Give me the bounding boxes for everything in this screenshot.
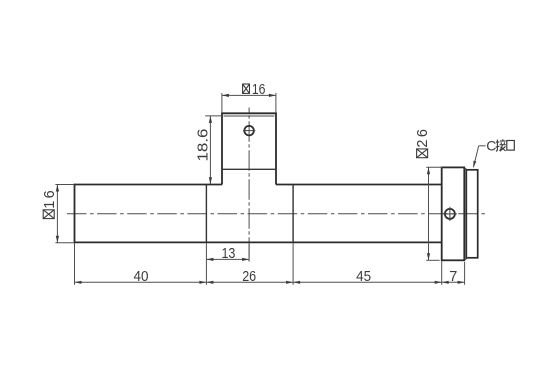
dimension diameter 16 top: extension lines xyxy=(222,93,276,113)
leader line for C interface xyxy=(474,146,486,167)
dimension diameter 26: extension lines xyxy=(426,167,442,260)
tube section line left xyxy=(205,185,207,243)
main tube outline xyxy=(75,184,442,244)
horizontal centerline xyxy=(67,213,487,215)
svg-text:16: 16 xyxy=(42,188,58,209)
dimension 13: arrows xyxy=(206,258,249,261)
top hole xyxy=(244,126,254,136)
label CJK kou (interface char 2) xyxy=(507,141,515,151)
dimension diameter 26: arrows xyxy=(427,167,430,260)
dimension 18.6: arrows xyxy=(209,116,212,184)
dimension diameter 16 left: dimension line xyxy=(56,185,58,243)
flange hole vertical tick xyxy=(449,207,451,221)
band between flange and C ring xyxy=(464,169,466,260)
chain dimension arrows xyxy=(75,281,465,284)
flange hole xyxy=(445,209,455,219)
svg-text:26: 26 xyxy=(415,127,431,148)
flange outline xyxy=(442,167,465,260)
dimension 13: extension line right (centerline extension) xyxy=(248,244,250,261)
chain dimension line xyxy=(75,281,465,283)
label CJK jie (interface char 1) xyxy=(496,139,506,151)
dimension diameter 16 left: extension lines xyxy=(55,185,74,243)
svg-text:16: 16 xyxy=(252,82,266,98)
dimension diameter 16 top: arrows xyxy=(222,94,276,97)
svg-text:7: 7 xyxy=(449,269,457,285)
dimension diameter 16 top: diameter box symbol xyxy=(243,84,250,93)
svg-text:C: C xyxy=(486,137,496,153)
svg-text:13: 13 xyxy=(221,246,235,262)
svg-text:26: 26 xyxy=(242,269,256,285)
vertical tube outline xyxy=(221,113,277,184)
vertical tube chamfer line xyxy=(224,115,275,117)
dimension diameter 26: dimension line xyxy=(428,167,430,260)
svg-text:45: 45 xyxy=(356,269,371,285)
dimension diameter 16 top: dimension line xyxy=(222,94,276,96)
dimension 13: dimension line xyxy=(206,258,249,260)
tube section line right xyxy=(292,185,294,243)
dimension 18.6: dimension line xyxy=(209,116,211,184)
chain dimensions extension lines xyxy=(75,243,465,285)
leader arrow xyxy=(473,161,476,169)
svg-text:18.6: 18.6 xyxy=(195,129,211,162)
dimension diameter 16 left: rotated text with diameter box xyxy=(42,188,58,218)
dimension diameter 16 left: arrows xyxy=(56,185,59,243)
dimension 18.6: extension line xyxy=(205,115,222,117)
top hole tick xyxy=(243,130,255,132)
svg-text:40: 40 xyxy=(134,269,149,285)
dimension diameter 26: rotated text with diameter box xyxy=(415,127,431,158)
flange hole horizontal tick xyxy=(443,213,457,215)
vertical tube shoulder line xyxy=(222,168,276,170)
C ring outline xyxy=(466,170,477,258)
vertical centerline xyxy=(248,108,250,262)
